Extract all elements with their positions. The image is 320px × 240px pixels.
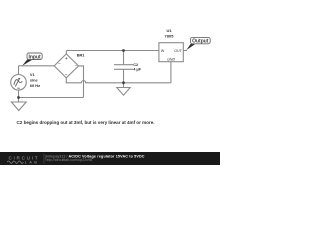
svg-text:OUT: OUT bbox=[174, 49, 182, 53]
svg-text:~: ~ bbox=[58, 61, 61, 66]
svg-text:Input: Input bbox=[28, 54, 41, 60]
svg-text:4 µF: 4 µF bbox=[133, 67, 141, 72]
svg-text:C2 begins dropping out at 3mf,: C2 begins dropping out at 3mf, but is ve… bbox=[17, 120, 155, 125]
svg-text:Output: Output bbox=[192, 39, 209, 45]
svg-text:BR1: BR1 bbox=[77, 53, 86, 58]
svg-text:60 Hz: 60 Hz bbox=[30, 83, 40, 88]
svg-text:U1: U1 bbox=[166, 28, 172, 33]
svg-text:GND: GND bbox=[167, 57, 175, 61]
svg-text:7805: 7805 bbox=[165, 33, 175, 38]
svg-text:−: − bbox=[65, 72, 68, 77]
svg-text:V1: V1 bbox=[30, 72, 36, 77]
svg-text:+: + bbox=[65, 56, 68, 61]
svg-text:LAB: LAB bbox=[25, 161, 38, 165]
svg-text:IN: IN bbox=[161, 49, 165, 53]
svg-text:http://circuitlab.com/cp22v98: http://circuitlab.com/cp22v98 bbox=[46, 158, 93, 162]
